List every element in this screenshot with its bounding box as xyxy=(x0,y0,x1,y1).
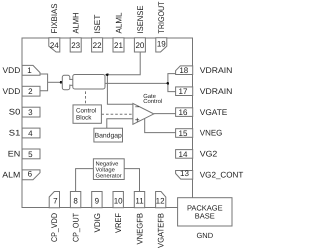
svg-text:+: + xyxy=(135,116,140,125)
svg-text:VREF: VREF xyxy=(114,213,123,233)
svg-text:19: 19 xyxy=(157,40,166,49)
svg-text:16: 16 xyxy=(179,108,188,117)
svg-text:EN: EN xyxy=(8,150,21,159)
svg-text:4: 4 xyxy=(28,129,33,138)
svg-text:1: 1 xyxy=(27,66,32,75)
svg-text:TRIGOUT: TRIGOUT xyxy=(157,2,166,34)
svg-text:3: 3 xyxy=(28,108,33,117)
svg-text:Bandgap: Bandgap xyxy=(95,132,122,139)
svg-text:12: 12 xyxy=(156,196,165,205)
svg-text:VG2_CONT: VG2_CONT xyxy=(200,171,244,180)
svg-text:15: 15 xyxy=(179,129,188,138)
svg-text:BASE: BASE xyxy=(195,212,215,221)
svg-text:23: 23 xyxy=(71,41,80,50)
svg-text:Voltage: Voltage xyxy=(96,166,115,173)
svg-text:2: 2 xyxy=(28,87,33,96)
svg-text:Control: Control xyxy=(143,98,162,105)
svg-text:11: 11 xyxy=(135,196,144,205)
svg-text:S1: S1 xyxy=(9,129,21,138)
svg-text:ISET: ISET xyxy=(93,15,102,34)
svg-text:20: 20 xyxy=(135,41,144,50)
svg-text:Negative: Negative xyxy=(96,160,119,167)
svg-text:8: 8 xyxy=(73,196,78,205)
svg-text:VDRAIN: VDRAIN xyxy=(200,87,233,96)
svg-text:7: 7 xyxy=(53,196,58,205)
svg-text:VNEGFB: VNEGFB xyxy=(135,213,144,245)
svg-text:5: 5 xyxy=(28,150,33,159)
svg-text:24: 24 xyxy=(50,41,59,50)
svg-text:Block: Block xyxy=(76,115,92,122)
svg-text:VGATEFB: VGATEFB xyxy=(157,213,166,248)
svg-text:Control: Control xyxy=(76,108,96,115)
svg-text:VDRAIN: VDRAIN xyxy=(200,66,233,75)
svg-text:13: 13 xyxy=(180,169,189,178)
svg-text:VDIG: VDIG xyxy=(93,213,102,233)
svg-text:S0: S0 xyxy=(9,108,21,117)
svg-text:VNEG: VNEG xyxy=(200,129,223,138)
svg-text:22: 22 xyxy=(93,41,102,50)
svg-text:VGATE: VGATE xyxy=(200,108,228,117)
svg-text:ALM: ALM xyxy=(2,170,20,179)
svg-text:CP_VDD: CP_VDD xyxy=(50,213,59,242)
svg-text:21: 21 xyxy=(114,41,123,50)
svg-text:CP_OUT: CP_OUT xyxy=(72,213,81,242)
svg-text:17: 17 xyxy=(179,87,188,96)
svg-text:ALML: ALML xyxy=(114,12,123,33)
svg-text:VDD: VDD xyxy=(3,66,21,75)
svg-text:−: − xyxy=(135,103,140,112)
svg-text:18: 18 xyxy=(179,66,188,75)
svg-text:GND: GND xyxy=(196,231,213,240)
svg-text:ALMH: ALMH xyxy=(72,12,81,33)
svg-text:6: 6 xyxy=(28,170,33,179)
svg-text:9: 9 xyxy=(95,196,100,205)
svg-text:Generator: Generator xyxy=(96,172,122,179)
svg-text:VG2: VG2 xyxy=(200,150,218,159)
svg-text:10: 10 xyxy=(114,196,123,205)
svg-text:VDD: VDD xyxy=(3,87,21,96)
svg-text:FIXBIAS: FIXBIAS xyxy=(50,3,59,34)
svg-text:ISENSE: ISENSE xyxy=(136,5,145,33)
svg-text:14: 14 xyxy=(179,150,188,159)
